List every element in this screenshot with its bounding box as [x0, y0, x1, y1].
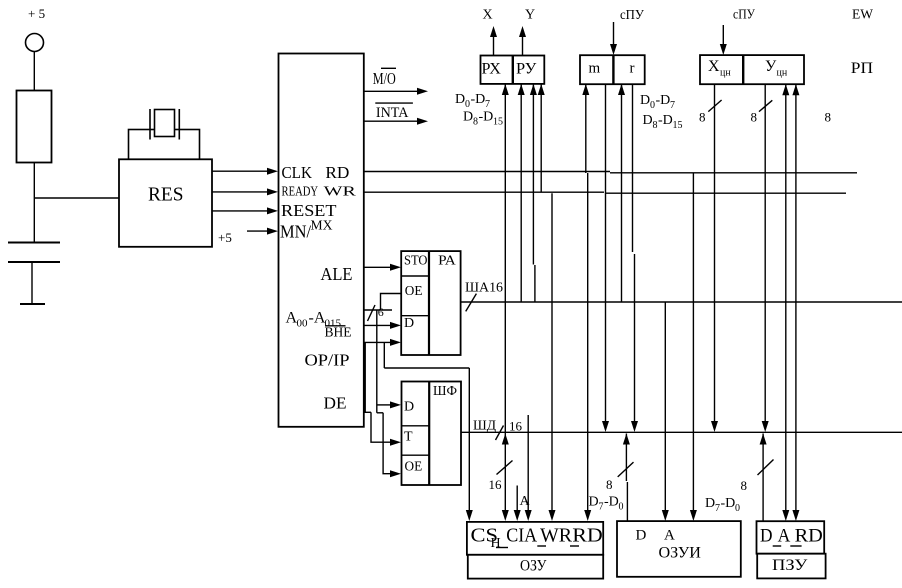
svg-text:MN/: MN/ — [280, 222, 311, 242]
svg-text:ОЗУИ: ОЗУИ — [659, 545, 702, 562]
svg-text:DE: DE — [324, 394, 347, 413]
wire r down lower part to SHD — [634, 254, 636, 421]
bus slash on SHD — [496, 426, 504, 441]
svg-text:0: 0 — [650, 100, 655, 111]
bus width slash 16 — [368, 305, 376, 321]
svg-text:8: 8 — [741, 478, 748, 493]
svg-text:8: 8 — [825, 110, 832, 125]
wire +5 to MN — [247, 230, 268, 232]
m/r divider — [612, 55, 614, 84]
CPU U1 box — [279, 54, 364, 427]
svg-text:-D: -D — [471, 92, 486, 107]
wire PY second line to SHA bus — [532, 84, 534, 265]
wire SHA up into r — [621, 84, 623, 302]
wire DE stub — [364, 411, 371, 413]
wire RES to RESET — [212, 210, 268, 212]
wire RD control down to OZUI — [692, 173, 694, 510]
svg-text:READY: READY — [282, 184, 319, 199]
ROM control box — [757, 521, 825, 554]
wire sPU down arrow into m/r — [613, 22, 615, 44]
svg-text:CLK: CLK — [282, 163, 313, 182]
svg-text:D: D — [455, 92, 465, 107]
svg-text:A: A — [778, 526, 791, 547]
wire RP data line B — [795, 84, 797, 510]
svg-text:7: 7 — [485, 99, 490, 110]
display RAM OZUI box — [617, 521, 741, 577]
wire OZUI data up to SHD — [625, 434, 627, 482]
wire Ucn down to SHD — [764, 84, 766, 421]
svg-text:D: D — [404, 316, 414, 331]
svg-text:15: 15 — [493, 117, 503, 128]
wire RA OE input — [381, 294, 402, 311]
svg-text:D: D — [636, 528, 647, 544]
svg-text:D: D — [463, 110, 473, 125]
crystal X1 left plate — [149, 109, 151, 140]
wire RES to CLK — [212, 170, 268, 172]
resistor R1 — [17, 91, 52, 163]
svg-text:ШФ: ШФ — [433, 383, 457, 398]
svg-text:сПУ: сПУ — [620, 8, 644, 23]
svg-text:+5: +5 — [218, 230, 232, 245]
wire A-bus vertical drop — [376, 310, 378, 413]
svg-text:X: X — [483, 8, 493, 23]
wire PZU data up to SHD — [762, 434, 764, 522]
address latch RA box — [401, 251, 460, 355]
svg-text:ШД: ШД — [473, 419, 496, 434]
svg-text:цн: цн — [777, 68, 788, 79]
RAM OZU box — [468, 555, 603, 579]
wire jog to OE drop — [377, 412, 383, 414]
wire resistor to capacitor — [33, 163, 35, 243]
SHF inner divider — [428, 382, 430, 486]
svg-text:A: A — [664, 528, 675, 544]
svg-text:ПЗУ: ПЗУ — [772, 557, 808, 574]
wire PY line to WR control — [540, 84, 542, 193]
svg-text:EW: EW — [852, 8, 874, 23]
svg-text:ОЗУ: ОЗУ — [520, 558, 547, 575]
wire WR control down to RAM — [551, 193, 553, 510]
data bus SHD — [461, 431, 902, 433]
svg-text:ВНЕ: ВНЕ — [325, 325, 352, 340]
svg-text:-D: -D — [479, 110, 494, 125]
svg-text:D: D — [705, 496, 715, 511]
svg-text:WR: WR — [540, 525, 573, 547]
RAM control box — [467, 522, 603, 555]
wire RP data line A — [785, 84, 787, 510]
bus slash below Xcn — [708, 100, 721, 112]
wire m/r divider down to SHD — [605, 84, 607, 421]
register m/r box — [580, 55, 645, 84]
svg-text:H: H — [491, 536, 501, 551]
svg-text:-D: -D — [604, 495, 619, 510]
wire ALE to STO arrow — [364, 266, 391, 268]
junction up arrow at SHD on PX line — [502, 434, 509, 445]
svg-text:D: D — [640, 93, 650, 108]
svg-text:сПУ: сПУ — [733, 8, 755, 23]
RA row divider OE/D — [401, 315, 429, 317]
crystal X1 body — [155, 110, 175, 137]
wire stub into RAM from SHD — [527, 415, 529, 510]
svg-text:r: r — [630, 61, 635, 77]
wire M/O output arrow — [364, 90, 417, 92]
wire down to RAM CS — [468, 368, 470, 511]
svg-text:0: 0 — [735, 503, 740, 514]
svg-text:Y: Y — [525, 8, 535, 23]
reset generator RES box — [119, 159, 212, 247]
RA row divider STO/OE — [401, 275, 429, 277]
wire PX data line to RAM — [504, 84, 506, 510]
svg-text:RES: RES — [148, 184, 184, 206]
svg-text:-D: -D — [721, 496, 736, 511]
wire m data line upper — [585, 84, 587, 173]
svg-text:-A: -A — [309, 310, 326, 327]
wire Xcn down to SHD — [714, 84, 716, 421]
terminal circle +5 — [26, 34, 44, 52]
wire DE ladder vertical — [364, 342, 366, 412]
crystal X1 right plate — [178, 109, 180, 140]
wire A-bus from CPU — [364, 309, 392, 311]
svg-text:РХ: РХ — [482, 61, 501, 78]
bus slash 16 on PX line — [497, 461, 513, 475]
wire across to RAM select — [384, 367, 469, 369]
svg-text:8: 8 — [751, 110, 758, 125]
svg-text:РУ: РУ — [516, 61, 536, 78]
SHF row divider T/OE — [402, 454, 430, 456]
bus slash 8 on OZUI data — [618, 462, 634, 477]
wire RD control line right part — [610, 172, 857, 174]
svg-text:цн: цн — [720, 68, 731, 79]
wire RES to READY — [212, 191, 268, 193]
SHF row divider D/T — [402, 425, 430, 427]
wire capacitor to ground — [31, 262, 33, 304]
PX/PY divider — [512, 56, 514, 84]
svg-text:6: 6 — [378, 305, 384, 319]
svg-text:D: D — [643, 113, 653, 128]
svg-text:0: 0 — [619, 502, 624, 513]
svg-text:-D: -D — [658, 113, 673, 128]
ground — [20, 303, 45, 305]
svg-text:STO: STO — [404, 253, 428, 268]
wire WR control line left part — [364, 191, 604, 193]
bus driver SHF box — [402, 382, 462, 486]
wire down to SHF OE — [383, 413, 391, 474]
svg-text:MX: MX — [311, 218, 333, 233]
svg-text:RD: RD — [572, 525, 603, 547]
svg-text:РП: РП — [851, 60, 873, 77]
svg-text:8: 8 — [653, 120, 658, 131]
svg-text:М/О: М/О — [373, 69, 396, 88]
RA inner divider — [428, 251, 430, 355]
wire r down upper part — [632, 84, 634, 252]
svg-text:7: 7 — [715, 503, 720, 514]
svg-text:m: m — [589, 61, 601, 77]
wire circle to resistor — [33, 52, 35, 91]
svg-text:D: D — [404, 400, 414, 415]
capacitor C1 top plate — [8, 242, 60, 244]
svg-text:OE: OE — [405, 459, 423, 474]
wire down to T — [371, 412, 391, 442]
wire sPU down arrow into Xcn — [722, 25, 724, 44]
capacitor C1 bottom plate — [8, 261, 60, 263]
svg-text:7: 7 — [670, 100, 675, 111]
bus slash 8 on PZU data — [758, 460, 774, 476]
pin label BHE overline — [325, 325, 346, 327]
wire INTA output arrow — [364, 120, 417, 122]
svg-text:РА: РА — [438, 253, 456, 268]
bus slash on SHA — [466, 294, 477, 312]
svg-text:+ 5: + 5 — [28, 6, 45, 21]
address bus SHA — [461, 301, 902, 303]
svg-text:ША16: ША16 — [465, 281, 503, 296]
svg-text:8: 8 — [473, 117, 478, 128]
svg-text:00: 00 — [297, 318, 309, 330]
crystal X1 holder box — [129, 130, 200, 160]
svg-text:OP/IP: OP/IP — [305, 351, 350, 370]
wire PX up arrow to X — [493, 36, 495, 56]
svg-text:У: У — [765, 58, 777, 75]
ROM PZU box — [757, 554, 825, 579]
wire m data line lower to RAM — [587, 173, 589, 510]
svg-text:INTA: INTA — [376, 105, 409, 121]
wire SHA down to OZUI address — [664, 302, 666, 510]
wire arrow into RA D — [364, 324, 391, 326]
svg-text:8: 8 — [606, 477, 613, 492]
wire arrow into SHF D — [377, 404, 391, 406]
counter register Xcn/Ucn box — [700, 55, 804, 84]
junction node to RES — [34, 197, 119, 199]
wire A address stub into RAM — [516, 486, 518, 511]
Xcn/Ucn divider — [742, 55, 744, 84]
svg-text:ALE: ALE — [321, 264, 353, 284]
svg-text:D: D — [760, 526, 773, 547]
wire RD control line left part — [364, 171, 610, 173]
svg-text:T: T — [404, 430, 413, 445]
svg-text:8: 8 — [699, 110, 706, 125]
wire PY line to SHA bus — [520, 84, 522, 302]
svg-text:7: 7 — [599, 502, 604, 513]
port register PX/PY box — [481, 56, 545, 84]
svg-text:RD: RD — [795, 526, 823, 547]
svg-text:RD: RD — [325, 163, 349, 182]
svg-text:OE: OE — [405, 283, 423, 298]
svg-text:D: D — [589, 495, 599, 510]
wire branch down from BHE row — [383, 342, 385, 368]
wire WR control line right part — [605, 192, 846, 194]
svg-text:WR: WR — [324, 184, 356, 199]
svg-text:Х: Х — [708, 58, 720, 75]
svg-text:16: 16 — [489, 477, 503, 492]
svg-text:-D: -D — [656, 93, 671, 108]
svg-text:15: 15 — [673, 120, 683, 131]
svg-text:0: 0 — [465, 99, 470, 110]
svg-text:CIA: CIA — [506, 525, 537, 547]
wire PY up arrow to Y — [522, 36, 524, 56]
wire arrow into RA D lower — [364, 341, 391, 343]
bus slash below Ucn — [759, 100, 772, 111]
svg-text:16: 16 — [509, 419, 523, 434]
